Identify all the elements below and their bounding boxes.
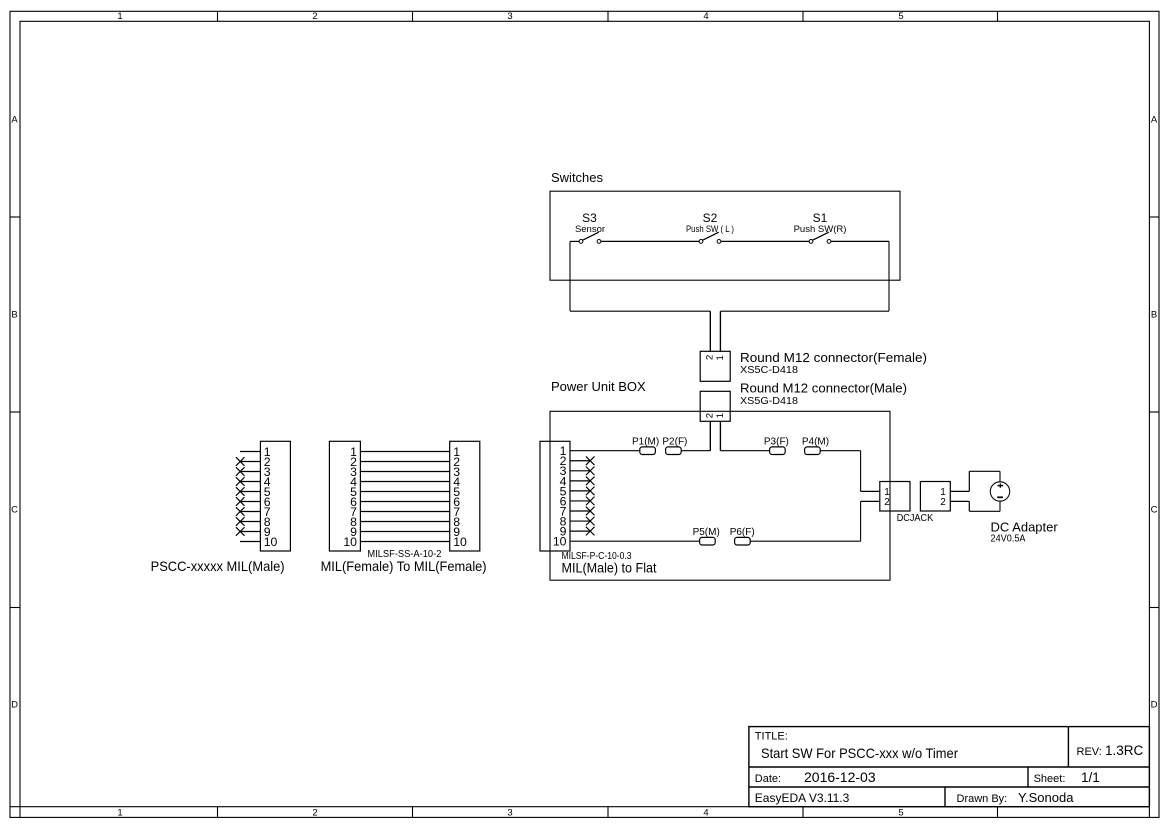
- svg-text:1.3RC: 1.3RC: [1105, 743, 1144, 758]
- svg-text:Push SW(R): Push SW(R): [794, 224, 847, 235]
- svg-text:A: A: [11, 115, 18, 126]
- svg-text:EasyEDA V3.11.3: EasyEDA V3.11.3: [755, 791, 850, 805]
- svg-text:Round M12 connector(Male): Round M12 connector(Male): [740, 380, 907, 395]
- svg-text:A: A: [1151, 115, 1158, 126]
- svg-text:S1: S1: [813, 211, 828, 225]
- svg-text:10: 10: [453, 535, 467, 549]
- svg-text:P5(M): P5(M): [693, 527, 720, 538]
- svg-text:5: 5: [898, 807, 903, 818]
- svg-text:S2: S2: [703, 211, 718, 225]
- svg-text:Switches: Switches: [551, 170, 604, 185]
- svg-text:2: 2: [312, 807, 317, 818]
- svg-text:Start SW For PSCC-xxx w/o Time: Start SW For PSCC-xxx w/o Timer: [761, 745, 958, 761]
- svg-text:S3: S3: [582, 211, 597, 225]
- svg-text:Round M12 connector(Female): Round M12 connector(Female): [740, 350, 927, 365]
- svg-text:REV:: REV:: [1077, 746, 1102, 758]
- svg-text:4: 4: [703, 11, 708, 22]
- svg-text:P1(M): P1(M): [632, 436, 659, 447]
- svg-text:1: 1: [117, 11, 122, 22]
- svg-text:D: D: [1151, 700, 1158, 711]
- svg-text:2: 2: [312, 11, 317, 22]
- svg-text:XS5G-D418: XS5G-D418: [740, 396, 798, 407]
- svg-text:C: C: [11, 505, 18, 516]
- svg-text:DCJACK: DCJACK: [897, 513, 934, 524]
- svg-text:P3(F): P3(F): [764, 436, 789, 447]
- svg-text:24V0.5A: 24V0.5A: [991, 533, 1026, 544]
- svg-text:2: 2: [704, 355, 715, 360]
- svg-text:P2(F): P2(F): [662, 436, 687, 447]
- svg-text:TITLE:: TITLE:: [755, 731, 788, 743]
- svg-text:3: 3: [507, 807, 512, 818]
- svg-text:MIL(Female) To MIL(Female): MIL(Female) To MIL(Female): [321, 558, 487, 574]
- svg-text:MIL(Male) to Flat: MIL(Male) to Flat: [562, 560, 657, 576]
- svg-text:1/1: 1/1: [1081, 770, 1100, 785]
- svg-text:Sheet:: Sheet:: [1034, 773, 1066, 785]
- svg-text:Date:: Date:: [755, 773, 781, 785]
- svg-text:D: D: [11, 700, 18, 711]
- svg-text:Push SW ( L ): Push SW ( L ): [686, 224, 734, 235]
- svg-text:B: B: [1151, 310, 1157, 321]
- svg-text:10: 10: [343, 535, 357, 549]
- svg-text:10: 10: [264, 535, 278, 549]
- svg-text:2: 2: [704, 413, 715, 418]
- svg-text:C: C: [1151, 505, 1158, 516]
- svg-text:Sensor: Sensor: [575, 224, 605, 235]
- svg-text:Y.Sonoda: Y.Sonoda: [1018, 790, 1074, 805]
- svg-text:1: 1: [715, 355, 726, 360]
- svg-text:2016-12-03: 2016-12-03: [804, 769, 876, 785]
- svg-text:DC Adapter: DC Adapter: [991, 520, 1059, 535]
- svg-text:P4(M): P4(M): [802, 436, 829, 447]
- svg-text:P6(F): P6(F): [730, 527, 755, 538]
- svg-text:2: 2: [940, 497, 946, 508]
- svg-text:3: 3: [507, 11, 512, 22]
- svg-text:XS5C-D418: XS5C-D418: [740, 365, 798, 376]
- svg-text:10: 10: [553, 535, 567, 549]
- svg-text:4: 4: [703, 807, 708, 818]
- svg-text:1: 1: [715, 413, 726, 418]
- svg-text:PSCC-xxxxx MIL(Male): PSCC-xxxxx MIL(Male): [151, 558, 285, 574]
- svg-text:2: 2: [884, 497, 890, 508]
- svg-text:Power Unit BOX: Power Unit BOX: [551, 379, 646, 394]
- svg-text:5: 5: [898, 11, 903, 22]
- svg-text:1: 1: [117, 807, 122, 818]
- svg-text:Drawn By:: Drawn By:: [957, 793, 1008, 805]
- svg-text:B: B: [11, 310, 17, 321]
